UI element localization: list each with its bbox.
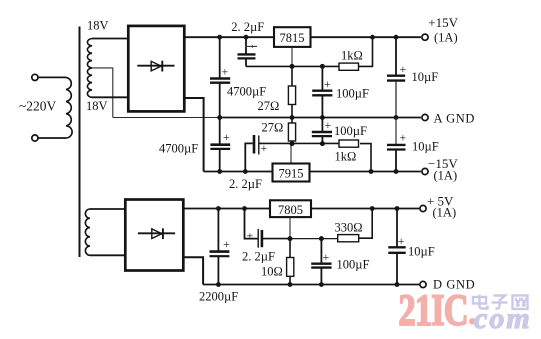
svg-text:+: + xyxy=(223,237,230,251)
junction R2/+15V rail xyxy=(370,35,375,40)
svg-text:(1A): (1A) xyxy=(434,169,458,183)
junction C3/gnd bus xyxy=(320,64,325,69)
wire -15V rail xyxy=(204,171,273,173)
capacitor C11 100uF xyxy=(311,239,331,285)
capacitor C4 10uF xyxy=(387,37,407,117)
svg-text:100µF: 100µF xyxy=(337,258,370,272)
terminal -15V xyxy=(422,156,458,183)
wire gnd bus to 330 xyxy=(290,238,338,240)
terminal +5V xyxy=(420,194,456,220)
svg-text:7805: 7805 xyxy=(278,203,303,217)
wire secondary2 bottom to bridge xyxy=(90,254,125,256)
wire bridge1 to -15V rail xyxy=(184,98,203,172)
resistor R3 27ohm xyxy=(288,118,295,144)
svg-text:+: + xyxy=(400,62,407,76)
svg-text:21IC: 21IC xyxy=(399,286,468,335)
svg-text:7815: 7815 xyxy=(280,31,305,45)
junction C7/gnd bus xyxy=(320,141,325,146)
capacitor C7 100uF xyxy=(312,118,332,144)
junction U3 gnd node xyxy=(288,236,293,241)
svg-text:100µF: 100µF xyxy=(334,124,367,138)
primary terminal top xyxy=(32,74,38,80)
svg-text:(1A): (1A) xyxy=(434,31,458,45)
wire +5V rail xyxy=(183,208,270,210)
wire primary top xyxy=(38,76,66,78)
watermark wang character xyxy=(513,296,528,310)
watermark dian character xyxy=(473,295,488,309)
svg-text:18V: 18V xyxy=(87,19,109,33)
resistor R2 1k xyxy=(339,63,359,70)
capacitor C3 100uF xyxy=(312,66,332,117)
svg-text:18V: 18V xyxy=(86,99,108,113)
svg-text:+: + xyxy=(247,229,254,243)
wire 7915 gnd bus xyxy=(259,142,339,144)
resistor R6 10ohm xyxy=(287,239,294,285)
wire primary bottom xyxy=(38,137,66,139)
svg-text:2. 2µF: 2. 2µF xyxy=(242,250,275,264)
wire 7805 gnd pin xyxy=(289,217,291,239)
svg-text:10µF: 10µF xyxy=(412,140,439,154)
svg-text:27Ω: 27Ω xyxy=(258,99,280,113)
junction C10/+5V rail xyxy=(242,206,247,211)
svg-text:10µF: 10µF xyxy=(412,70,439,84)
terminal +15V xyxy=(422,15,459,45)
wire 7815 gnd bus xyxy=(246,65,339,67)
svg-text:10µF: 10µF xyxy=(408,245,435,259)
bridge rectifier D2 xyxy=(125,200,183,271)
svg-text:7915: 7915 xyxy=(279,167,304,181)
svg-text:+: + xyxy=(223,130,230,144)
transformer core xyxy=(79,27,81,258)
terminal D GND xyxy=(420,278,475,292)
svg-text:(1A): (1A) xyxy=(433,205,457,219)
capacitor C10 2.2uF xyxy=(245,209,291,248)
svg-text:4700µF: 4700µF xyxy=(227,85,266,99)
junction C12/D GND xyxy=(395,282,400,287)
junction C1/+15V rail xyxy=(217,35,222,40)
wire secondary1 bottom to bridge xyxy=(92,96,128,98)
svg-text:1kΩ: 1kΩ xyxy=(341,49,363,63)
primary winding xyxy=(66,77,72,138)
junction C8/-15V rail xyxy=(394,169,399,174)
resistor R5 330ohm xyxy=(338,209,373,242)
junction C5/-15V rail xyxy=(217,169,222,174)
svg-text:2. 2µF: 2. 2µF xyxy=(231,20,264,34)
watermark 21IC logo xyxy=(399,286,476,335)
secondary winding 2 xyxy=(85,209,90,255)
junction C9/D GND xyxy=(216,282,221,287)
junction C11/D GND xyxy=(319,282,324,287)
capacitor C12 10uF xyxy=(388,209,405,285)
bridge rectifier D1 xyxy=(128,26,184,112)
resistor R1 27ohm xyxy=(288,66,295,117)
svg-text:com: com xyxy=(474,302,532,335)
junction C4/A GND xyxy=(394,115,399,120)
junction C9/+5V rail xyxy=(216,206,221,211)
capacitor C9 2200uF xyxy=(210,209,231,285)
junction U2 gnd node xyxy=(290,141,295,146)
capacitor C8 10uF xyxy=(387,118,407,172)
wire D GND rail xyxy=(203,284,419,286)
capacitor C2 2.2uF xyxy=(238,37,258,66)
svg-text:+: + xyxy=(400,131,407,145)
junction R1/A GND xyxy=(290,115,295,120)
junction U1 gnd node xyxy=(290,64,295,69)
regulator U1 7815 xyxy=(274,27,311,47)
junction C11/gnd bus xyxy=(319,236,324,241)
svg-text:2. 2µF: 2. 2µF xyxy=(229,177,262,191)
svg-text:+: + xyxy=(325,118,332,132)
wire secondary1 center tap xyxy=(92,68,113,118)
svg-text:100µF: 100µF xyxy=(336,87,369,101)
svg-text:+: + xyxy=(222,65,229,79)
wire bridge2 to D GND rail xyxy=(183,257,203,284)
regulator U3 7805 xyxy=(270,200,311,217)
svg-text:+: + xyxy=(398,234,405,248)
svg-text:+: + xyxy=(323,250,330,264)
svg-text:2200µF: 2200µF xyxy=(199,290,238,304)
wire 7815 gnd pin xyxy=(291,47,293,67)
regulator U2 7915 xyxy=(273,164,310,182)
svg-text:~220V: ~220V xyxy=(19,99,57,114)
svg-text:4700µF: 4700µF xyxy=(159,142,198,156)
wire 7915 input pin xyxy=(290,144,292,164)
capacitor C6 2.2uF xyxy=(245,135,267,172)
junction C3/A GND xyxy=(320,115,325,120)
svg-text:330Ω: 330Ω xyxy=(335,221,363,235)
primary terminal bottom xyxy=(32,135,38,141)
watermark zi character xyxy=(492,296,508,309)
transformer T1 xyxy=(19,19,128,258)
junction C1/A GND xyxy=(217,115,222,120)
junction R4/-15V rail xyxy=(369,169,374,174)
junction C12/+5V rail xyxy=(395,206,400,211)
wire A GND rail xyxy=(113,117,220,119)
svg-text:+: + xyxy=(261,141,268,155)
resistor R4 1k xyxy=(339,140,359,147)
wire secondary1 top to bridge xyxy=(92,38,128,40)
svg-text:+: + xyxy=(324,77,331,91)
svg-text:A GND: A GND xyxy=(434,112,476,126)
junction R6/D GND xyxy=(288,282,293,287)
secondary winding 1 (18V+18V) xyxy=(87,39,92,98)
svg-text:27Ω: 27Ω xyxy=(262,121,284,135)
capacitor C5 4700uF xyxy=(210,118,230,172)
capacitor C1 4700uF xyxy=(210,37,230,117)
junction C2/+15V rail xyxy=(244,35,249,40)
svg-text:+15V: +15V xyxy=(428,15,458,30)
junction C4/+15V rail xyxy=(394,35,399,40)
svg-text:1kΩ: 1kΩ xyxy=(335,150,357,164)
svg-text:10Ω: 10Ω xyxy=(261,265,283,279)
wire +15V rail xyxy=(184,36,274,38)
junction C6/-15V rail xyxy=(243,169,248,174)
junction R5/+5V rail xyxy=(370,206,375,211)
terminal A GND xyxy=(422,112,475,126)
wire secondary2 top to bridge xyxy=(90,208,125,210)
